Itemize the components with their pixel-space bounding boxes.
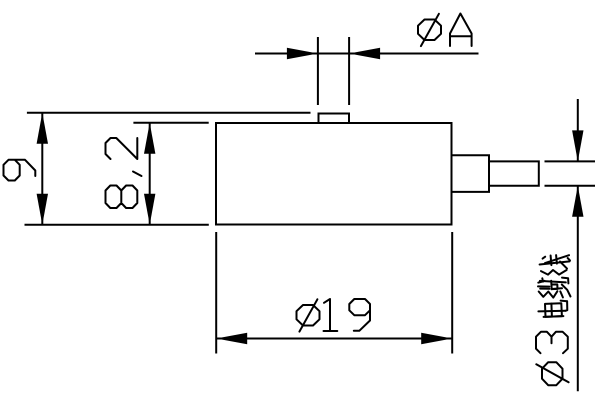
dimension A: extension line left bbox=[317, 37, 319, 105]
dimension 3: top extension line bbox=[545, 160, 596, 162]
dimension 3: upper dimension line bbox=[577, 99, 579, 161]
cable stub bbox=[489, 161, 539, 185]
dimension 9: top extension line bbox=[27, 112, 311, 114]
dimension 3: text lan (cable) bbox=[538, 278, 571, 298]
dimension 9: bottom arrow bbox=[37, 194, 48, 225]
dimension 19: right arrow bbox=[421, 333, 452, 344]
dimension 3: bottom extension line bbox=[545, 185, 596, 187]
dimension 3: upper arrow pointing down bbox=[572, 130, 583, 161]
dimension 19: left extension line bbox=[215, 232, 217, 354]
dimension A: left arrow bbox=[287, 48, 318, 59]
dimension 8,2: bottom arrow bbox=[144, 194, 155, 225]
dimension 19: left arrow bbox=[216, 333, 247, 344]
dimension 3: text xian (wire) bbox=[540, 255, 570, 275]
dimension 9: dimension line bbox=[41, 113, 43, 225]
dimension 3: lower arrow pointing up bbox=[572, 186, 583, 217]
dimension 9: text 9 rotated bbox=[4, 160, 36, 181]
dimension A: text ØA bbox=[418, 14, 472, 47]
dimension 8,2: text 8,2 rotated bbox=[106, 138, 142, 208]
dimension 3: text Ø3 rotated bbox=[536, 332, 569, 386]
dimension 9+8,2: bottom extension line bbox=[25, 224, 209, 226]
dimension 9: top arrow bbox=[37, 113, 48, 144]
dimension 19: dimension line bbox=[216, 338, 452, 340]
dimension 3: lower dimension line bbox=[577, 186, 579, 392]
dimension 8,2: top extension line bbox=[133, 122, 208, 124]
dimension 8,2: dimension line bbox=[149, 123, 151, 225]
dimension 19: text Ø19 bbox=[297, 299, 371, 332]
nub on top of body bbox=[319, 114, 350, 123]
dimension 19: right extension line bbox=[451, 232, 453, 354]
dimension 8,2: top arrow bbox=[144, 123, 155, 154]
dimension A: extension line right bbox=[348, 37, 350, 105]
dimension 3: text dian (electric) bbox=[538, 301, 567, 317]
body rectangle bbox=[216, 123, 452, 225]
connector step bbox=[452, 155, 490, 192]
dimension A: dimension line bbox=[255, 53, 479, 55]
dimension A: right arrow bbox=[349, 48, 380, 59]
